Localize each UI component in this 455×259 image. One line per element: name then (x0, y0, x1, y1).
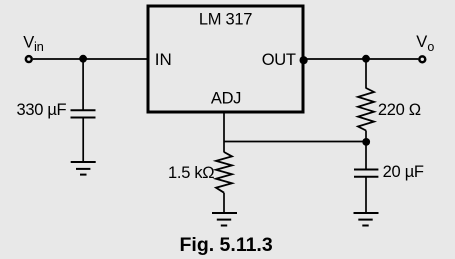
wire: ADJ pin down (223, 112, 225, 142)
wire: 220 ohm to lower node (365, 131, 367, 142)
svg-text:Fig. 5.11.3: Fig. 5.11.3 (179, 234, 272, 256)
wire: output node down to 220 ohm resistor (365, 59, 367, 89)
wire: Vin to IN pin (33, 58, 148, 60)
ground (input capacitor) (71, 162, 96, 175)
svg-text:Vin: Vin (23, 33, 43, 54)
ground (1.5k resistor) (212, 213, 237, 226)
svg-text:330 µF: 330 µF (16, 101, 66, 119)
node output junction dot (362, 55, 370, 63)
svg-text:LM 317: LM 317 (199, 10, 252, 28)
wire: ADJ horizontal to divider node (224, 141, 366, 143)
wire: 1.5k resistor to ground (223, 193, 225, 213)
svg-text:20 µF: 20 µF (383, 163, 424, 181)
resistor 220 ohm (358, 88, 374, 131)
wire: divider node down to 20uF capacitor (365, 142, 367, 170)
wire: input node down to 330uF capacitor (82, 59, 84, 110)
capacitor C1 330uF (71, 110, 96, 117)
svg-text:Vo: Vo (416, 33, 434, 54)
svg-text:1.5 kΩ: 1.5 kΩ (168, 164, 214, 182)
wire: down to 1.5k resistor (223, 142, 225, 153)
wire: 330uF to ground (82, 118, 84, 162)
terminal Vin open circle (26, 56, 32, 62)
resistor 1.5 kohm (216, 152, 232, 193)
wire: OUT pin to Vo (303, 58, 418, 60)
terminal Vo open circle (419, 56, 425, 62)
wire: 20uF to ground (365, 178, 367, 214)
op-amp-style regulator box U1 LM 317 (148, 6, 303, 112)
node input junction dot (79, 55, 87, 63)
node adj/output-divider junction dot (362, 138, 370, 146)
capacitor C2 20uF (354, 170, 378, 177)
svg-text:ADJ: ADJ (211, 90, 241, 108)
ground (20uF capacitor) (354, 213, 379, 226)
svg-text:220 Ω: 220 Ω (378, 101, 421, 119)
svg-text:IN: IN (155, 50, 172, 69)
svg-text:OUT: OUT (262, 51, 296, 69)
node OUT pin junction dot (300, 56, 308, 64)
